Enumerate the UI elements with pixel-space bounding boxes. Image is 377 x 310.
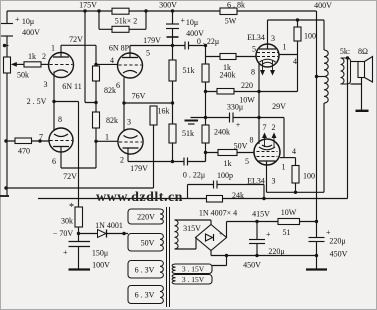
svg-text:16k: 16k	[158, 106, 170, 115]
node grid7 junction	[38, 139, 41, 142]
wire top B+ rail	[7, 10, 317, 12]
wire 1k upper grid line	[206, 56, 257, 58]
svg-text:6 . 8k: 6 . 8k	[227, 0, 245, 9]
svg-text:6: 6	[116, 81, 120, 90]
wire ground/NFB rail	[6, 187, 154, 189]
node cathode resistor left	[204, 90, 207, 93]
capacitor 10μ 400V input decoupling	[1, 11, 13, 46]
svg-text:5: 5	[245, 157, 249, 166]
wire 100 screen stub lower	[295, 158, 297, 166]
svg-text:− 70V: − 70V	[53, 229, 74, 238]
wire 179V lower plate line	[128, 161, 184, 163]
svg-text:82k: 82k	[104, 86, 116, 95]
wire coupling to grid node upper	[189, 45, 206, 47]
ground bar under 10μ cap	[167, 36, 179, 38]
node 82k midpoint	[94, 101, 97, 104]
capacitor 330μ cathode bypass	[230, 113, 234, 123]
wire EL34-1 plate lead	[267, 20, 269, 49]
svg-text:220μ: 220μ	[329, 236, 345, 245]
wire 400V feed line down right side	[316, 11, 318, 222]
svg-text:*: *	[69, 202, 74, 213]
node 2.5V cathode junction	[52, 100, 55, 103]
wire 6N11a plate lead pin1	[60, 45, 62, 57]
triode 6N11 section 1 (V1a)	[49, 53, 74, 78]
node heater tie	[225, 254, 228, 257]
transformer core	[167, 207, 170, 307]
capacitor 220μ 450V first	[249, 222, 265, 256]
winding 3.15V B	[172, 275, 212, 285]
svg-text:6: 6	[52, 157, 56, 166]
svg-text:400V: 400V	[22, 28, 40, 37]
ground bar speaker	[356, 110, 369, 112]
resistor 24k NFB	[207, 196, 223, 203]
wire ground stub mid	[191, 117, 230, 119]
svg-text:50V: 50V	[141, 238, 155, 247]
svg-text:1: 1	[51, 43, 55, 52]
resistor 51 10W filter	[278, 219, 300, 225]
wire 16k to rail	[153, 125, 155, 188]
capacitor 150μ 100V	[69, 234, 91, 269]
resistor 100 screen EL34-1	[294, 27, 301, 41]
resistor 240k lower grid leak	[202, 125, 209, 143]
wire pin1/4 lead EL34-2	[280, 157, 296, 159]
svg-text:76V: 76V	[132, 91, 146, 100]
svg-text:3: 3	[44, 80, 48, 89]
svg-text:2: 2	[42, 52, 46, 61]
svg-text:150μ: 150μ	[92, 248, 108, 257]
svg-text:4: 4	[110, 56, 114, 65]
wire 175V drop to plate loads	[85, 11, 96, 103]
node 175V right	[97, 9, 100, 12]
svg-text:5: 5	[252, 44, 256, 53]
svg-text:6N 8P: 6N 8P	[109, 43, 130, 52]
wire 6N11 cathode link	[53, 72, 55, 132]
pentode EL34 #2 (inverted)	[254, 139, 280, 165]
svg-text:29V: 29V	[272, 102, 286, 111]
wire 470 grid line	[6, 140, 49, 142]
capacitor 100p NFB	[214, 181, 218, 189]
svg-text:+: +	[219, 230, 223, 238]
resistor 220 10W cathode	[217, 89, 234, 95]
svg-text:1: 1	[283, 42, 287, 51]
wire 82k chain column	[95, 45, 97, 168]
svg-text:51k: 51k	[183, 66, 195, 75]
wire NFB vertical from secondary	[347, 58, 349, 199]
svg-text:3: 3	[272, 176, 276, 185]
node NFB-470 junction	[4, 139, 7, 142]
svg-text:51: 51	[283, 228, 291, 237]
wire OPT primary top lead	[323, 20, 325, 50]
wire tail down to 30k	[78, 102, 80, 234]
svg-text:2: 2	[120, 155, 124, 164]
node 300V rail tap	[171, 9, 174, 12]
resistor 1k grid stopper	[24, 62, 41, 67]
svg-text:400V: 400V	[314, 1, 332, 10]
svg-text:50V: 50V	[234, 141, 248, 150]
svg-text:240k: 240k	[220, 70, 236, 79]
capacitor 0.22μ lower coupling	[184, 158, 188, 166]
svg-text:240k: 240k	[214, 127, 230, 136]
wire EL34-2 plate to OPT bottom	[267, 191, 325, 193]
svg-text:1k: 1k	[224, 159, 232, 168]
node ground mid	[204, 116, 207, 119]
svg-text:470: 470	[18, 146, 30, 155]
svg-text:1: 1	[105, 132, 109, 141]
svg-text:6 . 3V: 6 . 3V	[135, 290, 155, 299]
svg-text:50k: 50k	[17, 70, 29, 79]
node 415V cap tap	[255, 220, 258, 223]
svg-text:8: 8	[58, 115, 62, 124]
svg-text:179V: 179V	[130, 164, 148, 173]
node cathode1 to bus	[257, 90, 260, 93]
svg-text:220μ: 220μ	[268, 247, 284, 256]
node 400V junction	[315, 220, 318, 223]
svg-text:8: 8	[250, 135, 254, 144]
svg-text:EL34: EL34	[247, 33, 265, 42]
wire HV top lead	[175, 220, 212, 225]
node 51k lower to plate line	[171, 160, 174, 163]
inductor OPT secondary winding	[341, 58, 351, 84]
wire 179V upper plate line	[130, 45, 185, 47]
wire speaker top lead	[351, 61, 359, 63]
winding 6.3V heater A	[128, 261, 163, 279]
svg-text:450V: 450V	[330, 249, 348, 258]
node rail 175V tap	[83, 9, 86, 12]
resistor 1k EL34-2 grid stopper	[218, 150, 237, 156]
node 300V left	[144, 9, 147, 12]
resistor 82k lower plate load	[93, 112, 100, 128]
svg-text:10μ: 10μ	[186, 18, 198, 27]
node NFB right junction	[262, 197, 265, 200]
wire -70V line	[79, 233, 98, 235]
resistor 16k tail	[150, 106, 157, 125]
node cathode tap	[122, 101, 125, 104]
ground bar 150μ	[69, 268, 91, 270]
heater arrows EL34-2	[263, 134, 276, 148]
svg-text:+: +	[181, 16, 186, 25]
wire 240k column	[205, 46, 207, 162]
bridge rectifier 1N4007x4	[196, 225, 227, 251]
wire g3 tie EL34-2	[283, 118, 285, 158]
svg-text:8Ω: 8Ω	[358, 47, 368, 56]
wire 3.15V tie lead	[212, 256, 227, 266]
svg-text:3: 3	[127, 117, 131, 126]
svg-text:0 . 22μ: 0 . 22μ	[183, 170, 205, 179]
svg-text:300V: 300V	[159, 1, 177, 10]
node secondary feedback tap	[346, 56, 349, 59]
svg-text:82k: 82k	[106, 116, 118, 125]
wire bridge DC+ up	[226, 222, 228, 238]
potentiometer 50k wiper arrow	[14, 63, 24, 65]
resistor 30k tail	[75, 207, 83, 227]
wire speaker bottom lead	[351, 78, 362, 111]
winding 220V primary	[128, 209, 163, 224]
svg-text:+: +	[15, 15, 20, 24]
svg-text:220V: 220V	[137, 212, 155, 221]
svg-text:175V: 175V	[79, 1, 97, 10]
wire 51k parallel stubs	[99, 11, 146, 29]
wire HV bottom lead	[175, 238, 197, 250]
ground tick bottom-left	[0, 195, 9, 197]
winding 3.15V A	[172, 264, 212, 274]
wire 100 screen stub upper	[297, 20, 299, 27]
svg-text:24k: 24k	[232, 191, 244, 200]
resistor 51k lower	[169, 124, 176, 143]
svg-text:+: +	[266, 230, 271, 239]
svg-text:330μ: 330μ	[227, 102, 243, 111]
svg-text:6N 11: 6N 11	[62, 82, 81, 91]
svg-text:2 . 5V: 2 . 5V	[27, 97, 47, 106]
svg-text:72V: 72V	[63, 172, 77, 181]
svg-text:1N 4001: 1N 4001	[95, 221, 123, 230]
node input junction	[3, 44, 6, 47]
svg-text:2: 2	[272, 123, 276, 132]
svg-text:10W: 10W	[281, 208, 297, 217]
wire cathode tap to 16k and 51k node	[124, 102, 173, 104]
svg-text:1k: 1k	[28, 52, 36, 61]
wire OPT center tap stub	[317, 76, 325, 78]
wire pin1/4 lead EL34-1	[279, 54, 298, 56]
triode 6N8P section 2 (V2b, inverted)	[118, 129, 143, 154]
wire 1k to grid pin2	[41, 63, 49, 65]
svg-text:179V: 179V	[143, 36, 161, 45]
resistor 51k series B	[112, 26, 129, 32]
svg-text:4: 4	[292, 147, 296, 156]
resistor 100 screen EL34-2	[292, 166, 299, 184]
svg-text:400V: 400V	[186, 29, 204, 38]
svg-text:30k: 30k	[61, 216, 73, 225]
wire 415V line	[227, 221, 317, 223]
inductor OPT primary coil	[324, 50, 328, 103]
triode 6N11 section 2 (V1b, inverted)	[49, 128, 73, 152]
svg-text:3: 3	[271, 34, 275, 43]
node cathode bypass junction	[257, 116, 260, 119]
wire coupling to grid node lower	[188, 153, 206, 162]
wire EL34-2 plate lead	[266, 161, 268, 192]
svg-text:7: 7	[263, 123, 267, 132]
ground bar PSU	[306, 268, 327, 270]
svg-text:+: +	[236, 120, 241, 129]
wire 51k column	[172, 46, 174, 162]
node 51k midpoint	[171, 101, 174, 104]
wire 100p branch	[188, 185, 265, 199]
capacitor 10μ 400V mid decoupling	[166, 11, 179, 46]
wire 6N11b plate lead	[61, 147, 96, 169]
node lower grid junction	[204, 151, 207, 154]
wire 1k lower grid line	[206, 152, 255, 154]
wire NFB bus with 24k	[38, 198, 348, 200]
wire grid pin4 (6N8Pa)	[96, 63, 118, 65]
capacitor 0.22μ upper coupling	[185, 42, 189, 50]
wire PSU ground bus	[211, 255, 317, 257]
heater arrows EL34-1	[261, 60, 275, 75]
wire 6N8P cathode coupling	[123, 78, 125, 132]
winding 6.3V heater B	[128, 286, 163, 304]
wire 6N8Pb plate lead	[127, 148, 129, 162]
svg-text:72V: 72V	[69, 35, 83, 44]
wire cathode bypass to cathodes	[233, 117, 284, 119]
svg-text:415V: 415V	[252, 209, 270, 218]
resistor 470 grid	[15, 138, 32, 144]
node OPT center tap	[315, 75, 318, 78]
triode 6N8P section 1 (V2a)	[118, 53, 143, 78]
node upper grid junction	[204, 44, 207, 47]
svg-text:8: 8	[251, 67, 255, 76]
wire grid pin1 (6N8Pb)	[96, 140, 118, 142]
svg-text:1: 1	[282, 162, 286, 171]
node cap2 ground	[315, 254, 318, 257]
wire EL34-1 plate to OPT top	[268, 19, 325, 21]
resistor 240k upper grid leak	[202, 64, 209, 82]
svg-text:6 . 3V: 6 . 3V	[135, 265, 155, 274]
node screen-plate junction lower	[294, 191, 297, 194]
wire OPT primary bottom lead	[323, 103, 325, 192]
wire EL34 cathode bus	[206, 91, 298, 93]
svg-text:51k× 2: 51k× 2	[115, 16, 138, 25]
node grid1 / 82k bottom	[94, 140, 97, 143]
node cap1 ground	[255, 254, 258, 257]
svg-text:5k:: 5k:	[340, 47, 350, 56]
wire 72V plate node (V1a)	[61, 44, 96, 46]
wire 6N8Pa plate lead pin5	[129, 46, 131, 58]
wire screen/g3 column EL34-1	[297, 41, 299, 92]
pentode EL34 #1	[256, 44, 279, 67]
node 179V upper / 51k top	[171, 44, 174, 47]
svg-text:0 . 22μ: 0 . 22μ	[197, 37, 219, 46]
svg-text:100V: 100V	[92, 260, 110, 269]
svg-text:3 . 15V: 3 . 15V	[182, 275, 205, 284]
wire screen to plate lower	[295, 183, 297, 192]
svg-text:315V: 315V	[183, 224, 201, 233]
resistor 51k upper	[169, 60, 176, 81]
resistor 82k upper plate load	[93, 66, 100, 81]
svg-text:10μ: 10μ	[22, 17, 34, 26]
winding 50V	[128, 234, 163, 252]
wire left vertical bus	[6, 46, 8, 197]
svg-text:100: 100	[304, 31, 316, 40]
svg-text:www.dzdlt.cn: www.dzdlt.cn	[96, 190, 183, 205]
node rail-NFB left	[4, 186, 7, 189]
wire 2.5V tap to tail	[54, 101, 79, 103]
svg-text:4: 4	[293, 57, 297, 66]
resistor 6.8k 5W dropping	[220, 8, 237, 15]
svg-text:+: +	[63, 248, 68, 257]
node -70V junction	[77, 232, 80, 235]
node grid4 / 82k top	[94, 63, 97, 66]
svg-text:450V: 450V	[243, 260, 261, 269]
wire bridge DC- down	[210, 251, 212, 256]
svg-text:3 . 15V: 3 . 15V	[182, 265, 205, 274]
svg-text:100p: 100p	[217, 171, 233, 180]
potentiometer 50k body	[4, 57, 11, 73]
diode 1N4001	[98, 230, 107, 238]
wire input stub	[5, 45, 9, 47]
resistor 1k EL34-1 grid stopper	[220, 54, 236, 60]
svg-text:5W: 5W	[225, 16, 237, 25]
winding 315V HV	[175, 220, 179, 249]
svg-text:5: 5	[146, 48, 150, 57]
resistor 51k series A	[112, 8, 129, 14]
svg-text:220: 220	[241, 81, 253, 90]
node screen tap upper	[296, 18, 299, 21]
ground bar mid	[185, 120, 199, 122]
capacitor 220μ 450V second	[309, 222, 325, 269]
svg-text:100: 100	[303, 171, 315, 180]
wire diode to winding	[107, 233, 129, 235]
wire EL34-1 cathode lead	[258, 63, 260, 144]
node diode-winding junction	[122, 232, 125, 235]
svg-text:1N 4007× 4: 1N 4007× 4	[199, 208, 237, 217]
speaker	[358, 57, 373, 83]
svg-text:51k: 51k	[182, 129, 194, 138]
